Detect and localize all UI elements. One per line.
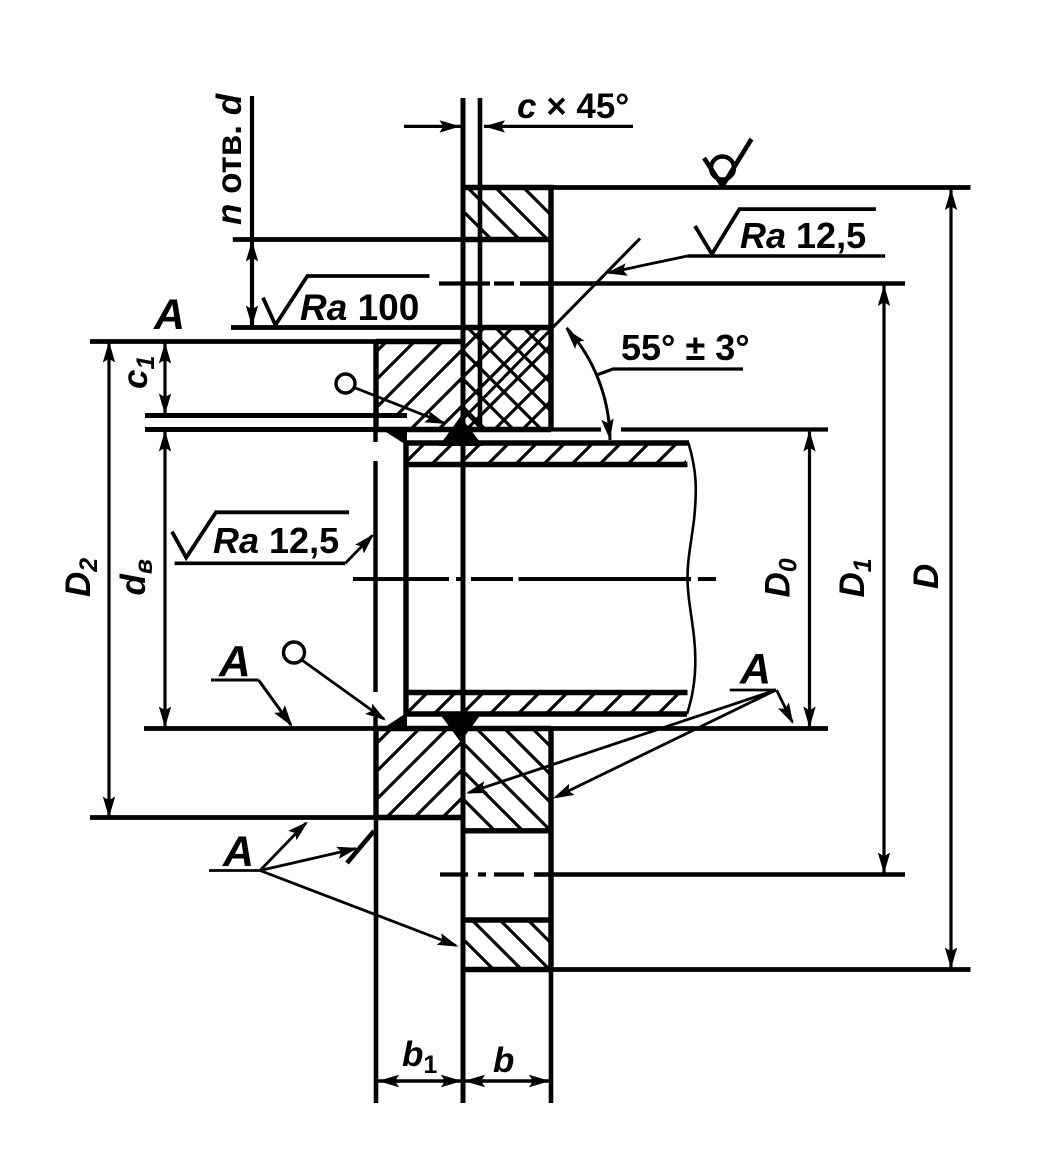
hub front face upper segment [373,342,378,430]
svg-text:D: D [907,564,946,589]
dimension line n holes d [250,96,254,328]
dimension line D [949,188,952,970]
svg-text:Ra 12,5: Ra 12,5 [740,215,866,256]
extension line D0 top [551,427,601,431]
oblique surface stroke near b1 extension [347,831,374,863]
extension line D bottom [551,967,971,972]
pipe outer bottom surface [406,711,687,716]
pipe axis centerline [353,577,449,581]
flange top hub block (raised face) [376,342,463,416]
flange bottom hub block (raised face) [376,729,463,818]
dimension line D1 [882,284,885,875]
flange bottom rim block (below bolt hole) [463,920,551,970]
extension line / Ra100 shelf at bolt hole bottom [231,325,463,330]
extension line b1/b middle [461,970,466,1104]
pipe break line (wavy) [687,443,696,714]
extension line chamfer upper (c1 lower ref) [145,413,407,418]
hub bottom face (raised face diameter D2 bottom) [376,815,463,820]
dimension line c1 [163,342,166,416]
weld fillet bottom outer (solid) [438,712,483,743]
pipe bottom wall section [406,693,685,715]
weld bevel line 55 deg [462,239,640,421]
flange bore bottom edge [377,726,551,731]
upper bolt hole centerline [439,281,490,285]
flange top rim block (above bolt hole) [463,188,551,240]
flange right face upper segment [548,188,553,430]
extension line D top [554,185,971,190]
bolt hole top edge (upper hole) [463,237,551,242]
55 deg angle arc with arrows [567,328,610,440]
svg-text:Ra 12,5: Ra 12,5 [213,520,339,561]
svg-text:55° ± 3°: 55° ± 3° [621,327,750,368]
pipe top wall section [406,443,686,465]
pipe outer top surface [406,440,689,445]
dimension line d_v (bore diameter) [163,430,166,729]
svg-text:A: A [222,828,254,876]
bolt hole top edge (lower hole) [463,828,551,833]
bolt hole bottom edge (lower hole) [463,917,551,922]
svg-text:n отв. d: n отв. d [210,93,249,225]
extension line D2 bottom [90,815,376,820]
flange top face (outer diameter D top) [461,185,554,190]
bore front edge line (thin, seen through bore) [373,430,377,442]
extension line bore bottom left [144,726,377,731]
55 deg callout shelf [598,369,613,375]
dimension line D0 [808,430,811,729]
dimension line b1 [377,1079,463,1082]
flange top plate block (cross-hatched) [463,328,551,430]
weld fillet bottom inner at pipe end (solid) [382,713,407,730]
pipe inner bottom surface [406,690,688,695]
flange bottom plate block [463,729,551,831]
roughness symbol Ra 12,5 right with leader [695,209,876,254]
weld leader circle top [336,374,355,393]
flange bore top edge [376,427,551,432]
roughness symbol Ra 12,5 left with leader [172,512,349,557]
extension line D2 top [90,339,376,344]
extension line bolt hole top [233,237,463,242]
lower bolt hole centerline [440,872,468,876]
svg-text:Ra 100: Ra 100 [300,287,419,328]
bolt hole bottom edge (upper hole) [463,325,551,330]
svg-text:A: A [739,646,771,694]
weld fillet top inner at pipe end (solid) [382,430,407,446]
dimension line c x 45 right part [484,125,633,128]
extension line b right [549,970,554,1104]
dimension line D2 [107,340,110,818]
pipe inner top surface [406,462,688,467]
flange left face line (front face through all views) [461,98,466,1103]
pipe end face [403,441,408,717]
extension line bore top (d_v upper ref) [145,427,376,432]
hub front face lower segment [373,729,378,818]
chamfer edge on bore (c x 45) [463,410,482,430]
svg-text:A: A [153,291,185,339]
svg-text:c × 45°: c × 45° [517,87,629,126]
extension line bore bottom right / D0 bottom [551,726,828,731]
dimension line c x 45 left part [404,125,461,128]
svg-text:b: b [493,1041,514,1080]
surface symbol with circle (no machining) on top line [704,139,752,186]
dimension line b [463,1079,551,1082]
flange bottom face (outer diameter D bottom) [463,967,551,972]
flange right face lower segment [548,729,553,970]
weld leader circle bottom [284,642,305,663]
weld fillet top outer (solid) [439,417,483,447]
extension line b1 left [374,818,379,1104]
extension lines c x 45 (above flange) [478,98,483,430]
hub top face (raised face diameter D2 top) [376,339,463,344]
roughness symbol Ra 100 [263,276,429,325]
